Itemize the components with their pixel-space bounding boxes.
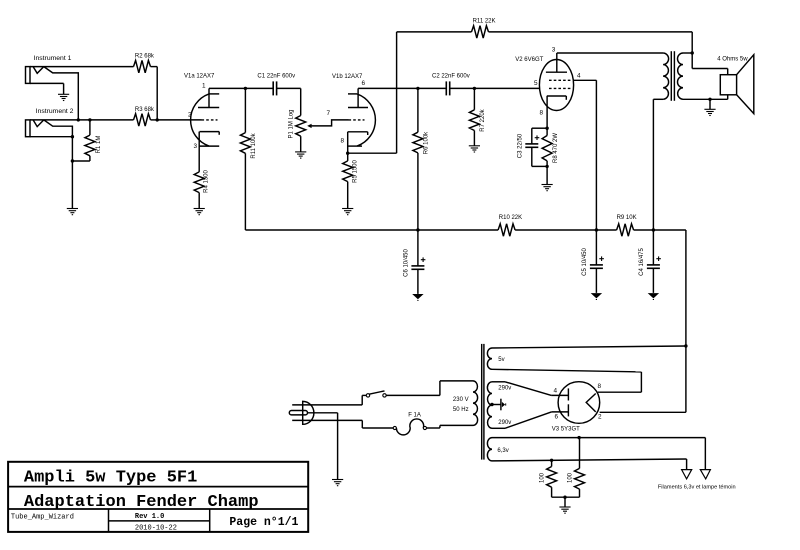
T1 primary winding 230V — [473, 381, 478, 426]
node G (C6 node) — [416, 228, 419, 231]
resistor R3 68k — [134, 114, 151, 126]
resistor R10 22K — [498, 224, 515, 236]
humdinger resistors 100 ohm — [550, 459, 553, 462]
svg-text:V1a 12AX7: V1a 12AX7 — [184, 74, 215, 80]
svg-text:4: 4 — [554, 388, 558, 395]
svg-text:5: 5 — [534, 80, 538, 87]
node I (C4 node) — [652, 228, 655, 231]
svg-text:C3 22/50: C3 22/50 — [517, 133, 523, 158]
resistor R4 1500 (V1a cathode) — [194, 172, 204, 193]
transformer T1 power: core — [481, 344, 483, 460]
capacitor C1 22nF 600v — [245, 87, 273, 89]
svg-text:C4 16/475: C4 16/475 — [639, 248, 645, 276]
svg-text:2010-10-22: 2010-10-22 — [135, 524, 177, 532]
svg-text:290v: 290v — [498, 420, 511, 426]
capacitor C4 16/475 — [652, 230, 654, 265]
wire: instrument 2 tip line — [30, 119, 134, 121]
svg-text:Rev 1.0: Rev 1.0 — [135, 513, 164, 521]
wire: V2 plate to output transformer — [557, 52, 663, 54]
svg-text:8: 8 — [540, 110, 544, 117]
wire: V1b cathode to feedback — [348, 152, 397, 154]
svg-text:R1 1M: R1 1M — [96, 136, 102, 154]
tube V1a 12AX7 (triode) — [191, 94, 209, 146]
ground (speaker return) — [704, 108, 715, 110]
ground (V2 cathode) — [542, 184, 553, 186]
ground (R4) — [194, 208, 205, 210]
capacitor C2 22nF 600v — [418, 87, 446, 89]
node C (V1b plate node) — [416, 87, 419, 90]
mains plug — [303, 401, 314, 424]
tube V1b 12AX7 (triode, mirrored) — [357, 94, 375, 146]
svg-text:6: 6 — [362, 80, 366, 87]
title block — [8, 462, 308, 532]
svg-text:R11 22K: R11 22K — [473, 19, 496, 25]
svg-text:3: 3 — [552, 46, 556, 53]
svg-text:V2 6V6GT: V2 6V6GT — [515, 57, 543, 63]
svg-text:100: 100 — [568, 472, 574, 483]
resistor R11 100k (plate load) — [244, 88, 246, 132]
svg-text:Instrument 1: Instrument 1 — [34, 55, 72, 62]
wire: OT primary bottom to B+ — [653, 98, 663, 100]
node E (V2 cathode) — [545, 127, 548, 130]
svg-text:1: 1 — [202, 82, 206, 89]
resistor R5 1500 (V1b cathode) — [347, 153, 349, 161]
svg-text:Ampli 5w Type 5F1: Ampli 5w Type 5F1 — [24, 469, 197, 488]
ground (P1) — [295, 151, 306, 153]
svg-text:Filaments 6,3v et lampe témoin: Filaments 6,3v et lampe témoin — [658, 485, 736, 491]
wire: feedback vertical — [396, 32, 398, 153]
T1 HV winding 290v-0-290v — [487, 382, 492, 429]
svg-text:5v: 5v — [498, 357, 504, 363]
svg-text:Tube_Amp_Wizard: Tube_Amp_Wizard — [11, 514, 74, 522]
svg-text:3: 3 — [194, 143, 198, 150]
node D (V2 grid node) — [473, 87, 476, 90]
resistor R11 22K (feedback) — [397, 31, 472, 33]
speaker 4 Ohms 5w — [720, 75, 736, 95]
switch SW1 — [362, 394, 366, 396]
wire: R3 to V1a grid — [151, 119, 158, 121]
svg-text:6: 6 — [555, 414, 559, 421]
resistor R7 220k (grid leak) — [473, 88, 475, 109]
svg-text:230 V: 230 V — [453, 397, 469, 403]
svg-text:R9 10K: R9 10K — [617, 215, 637, 221]
node F (speaker hot) — [691, 51, 694, 54]
svg-text:F 1A: F 1A — [408, 413, 421, 419]
ground (heater humdinger) — [559, 506, 570, 508]
svg-text:290v: 290v — [498, 386, 511, 392]
resistor R1 1M — [88, 118, 91, 121]
earth wire — [337, 413, 339, 480]
svg-text:R8 470 2W: R8 470 2W — [553, 133, 559, 163]
svg-text:2: 2 — [598, 414, 602, 421]
ground (R5) — [342, 208, 353, 210]
wire: V2 screen to node — [573, 79, 596, 81]
capacitor C3 22/50 (cathode bypass) — [532, 127, 547, 129]
resistor R9 10K — [617, 224, 634, 236]
wire: B+ bus — [245, 229, 498, 231]
svg-text:50 Hz: 50 Hz — [453, 407, 469, 413]
svg-text:Instrument 2: Instrument 2 — [36, 108, 74, 115]
wire: instrument 1 tip line — [30, 66, 134, 68]
svg-text:100: 100 — [540, 472, 546, 483]
svg-text:Page n°1/1: Page n°1/1 — [229, 516, 298, 529]
svg-text:C2 22nF 600v: C2 22nF 600v — [432, 74, 470, 80]
ground (input) — [67, 208, 78, 210]
capacitor C6 10/450 — [417, 230, 419, 266]
svg-text:R10 22K: R10 22K — [499, 215, 522, 221]
jack J2 Instrument 2 — [26, 120, 31, 137]
svg-text:8: 8 — [598, 383, 602, 390]
wire: 6.3v to pilot — [704, 438, 706, 470]
svg-text:P1 1M Log: P1 1M Log — [289, 109, 295, 138]
svg-text:7: 7 — [327, 110, 331, 117]
HV center tap — [490, 403, 493, 406]
T1 6.3v winding — [487, 438, 492, 461]
svg-text:C1 22nF 600v: C1 22nF 600v — [257, 74, 295, 80]
wire: V1a plate to node — [209, 87, 245, 89]
wire: V1b plate to node — [358, 87, 418, 89]
capacitor C5 10/450 — [595, 230, 597, 265]
ground (jack J1 sleeve) — [58, 93, 69, 95]
svg-text:R7 220k: R7 220k — [480, 108, 486, 131]
potentiometer P1 1M Log — [296, 116, 306, 137]
svg-text:2: 2 — [188, 112, 192, 119]
svg-text:Adaptation Fender Champ: Adaptation Fender Champ — [24, 493, 259, 512]
svg-text:R11 100k: R11 100k — [251, 132, 257, 158]
ground (C5) — [591, 293, 602, 298]
resistor R8 470 2W (cathode) — [546, 128, 548, 135]
svg-text:C6 10/450: C6 10/450 — [403, 249, 409, 277]
wire: OT secondary bottom — [683, 98, 728, 100]
ground (C4) — [648, 293, 659, 298]
svg-text:R5 1500: R5 1500 — [353, 159, 359, 182]
svg-text:V1b 12AX7: V1b 12AX7 — [332, 74, 363, 80]
transformer T2 output — [670, 51, 672, 101]
svg-text:C5 10/450: C5 10/450 — [582, 248, 588, 276]
node H (C5 node) — [595, 228, 598, 231]
svg-text:R6 100k: R6 100k — [424, 131, 430, 154]
tube V3 5Y3GT (rectifier) — [558, 382, 600, 424]
resistor R6 100k (plate load) — [417, 88, 419, 132]
ground (R7) — [469, 145, 480, 147]
node B (V1a plate node) — [244, 87, 247, 90]
jack J1 Instrument 1 — [26, 67, 31, 84]
svg-text:R4 1500: R4 1500 — [204, 169, 210, 192]
svg-text:R3 68k: R3 68k — [135, 107, 155, 113]
wire: grid to V2 — [474, 87, 539, 89]
svg-text:4 Ohms 5w: 4 Ohms 5w — [717, 57, 748, 63]
wire: 5v bottom to V3 pin 8 — [492, 369, 641, 372]
svg-text:4: 4 — [577, 72, 581, 79]
wire: V3 pin 2 to B+ — [600, 411, 686, 413]
T1 5v winding — [487, 348, 492, 369]
filament arrow right — [700, 470, 710, 479]
P1 wiper arrow — [307, 124, 311, 128]
resistor R2 68k — [134, 60, 151, 72]
wire: R2 to node A — [151, 66, 158, 68]
svg-text:6,3v: 6,3v — [497, 448, 508, 454]
node: J2 sleeve junction — [71, 135, 74, 138]
tube V2 6V6GT (pentode) — [539, 60, 573, 111]
filament arrow left — [682, 470, 692, 479]
wire: B+ to rectifier — [685, 230, 687, 346]
fuse F 1A — [362, 427, 393, 429]
svg-text:8: 8 — [341, 138, 345, 145]
ground (mains earth) — [332, 479, 343, 481]
node A (grid junction) — [156, 118, 159, 121]
ground (C6) — [412, 294, 423, 299]
svg-text:V3 5Y3GT: V3 5Y3GT — [552, 427, 580, 433]
svg-text:R2 68k: R2 68k — [135, 54, 155, 60]
